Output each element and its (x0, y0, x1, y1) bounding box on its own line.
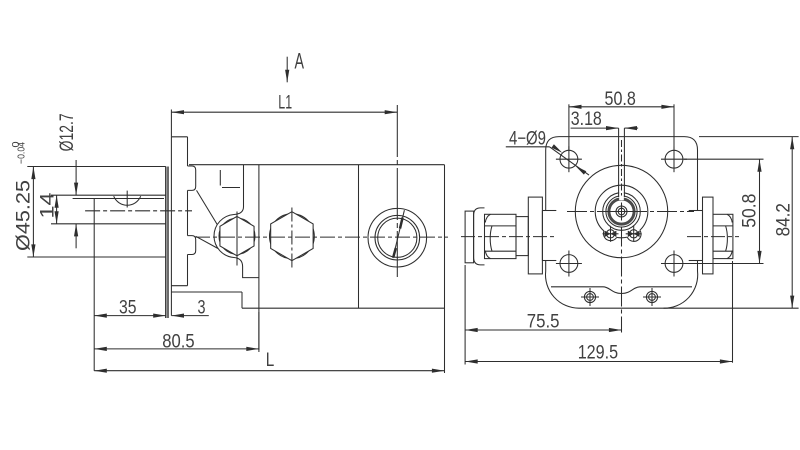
right port boss (689, 211, 703, 261)
left fitting hex nut (485, 214, 517, 258)
bell cover arc around plug (214, 215, 234, 258)
cylinder pilot boss Ø45.25 (27, 167, 166, 258)
dim 14 (56, 195, 58, 224)
svg-text:80.5: 80.5 (162, 331, 194, 352)
cover foot (171, 292, 242, 308)
keyway slot lines / 3.18 extensions (619, 128, 625, 200)
dim Ø45.25 0/-0.04 (32, 167, 34, 258)
bolt hole upper-right (661, 146, 687, 172)
svg-text:Ø12.7: Ø12.7 (57, 113, 78, 151)
square flange outline with rounded top corners (546, 137, 698, 211)
svg-text:129.5: 129.5 (578, 342, 618, 363)
svg-text:−0.04: −0.04 (16, 142, 28, 164)
dim 50.8 right (684, 159, 764, 263)
keyway line (73, 198, 164, 200)
bolt hole upper-left (556, 146, 582, 172)
cover edge vertical x243 (234, 165, 244, 215)
svg-text:35: 35 (119, 298, 137, 319)
bearing retainer circle with screw notches (595, 185, 648, 231)
shaft Ø12.7 (51, 195, 166, 224)
svg-text:50.8: 50.8 (605, 89, 636, 110)
joint line cover/body (258, 165, 260, 350)
rear port vertical centerline / L1 extension (396, 105, 398, 277)
shaft center dot (618, 208, 625, 215)
cylinder front face double line (166, 167, 168, 319)
flange lower tab (188, 236, 196, 255)
foot screw right (643, 288, 661, 306)
left port centerline (461, 236, 556, 238)
right fitting disc (703, 197, 714, 274)
foot screw left (581, 288, 599, 306)
flange plate (171, 137, 187, 316)
left fitting disc (528, 197, 542, 274)
dim 75.5 (465, 265, 621, 365)
left fitting end cap (465, 211, 474, 263)
hex plug P1 hexagon (220, 216, 254, 255)
dim 80.5 (94, 312, 259, 352)
rear port thread slant line (393, 210, 405, 258)
body right edge (444, 165, 446, 373)
bushing heavy ring (609, 199, 634, 224)
hex plug P2 vertical centerline (291, 208, 293, 268)
right port centerline (687, 236, 739, 238)
dim 35 (94, 315, 166, 317)
L-shaped surface mark (220, 170, 240, 188)
bell cover lower slant (196, 236, 218, 248)
svg-text:50.8: 50.8 (740, 194, 761, 228)
left fitting neck (516, 217, 528, 256)
dim 84.2 (699, 137, 799, 309)
body top edge (189, 164, 445, 166)
bearing bore outer circle (603, 193, 641, 231)
svg-text:84.2: 84.2 (773, 203, 794, 236)
body bottom edge (242, 307, 445, 309)
plug boss lower edge (234, 258, 259, 278)
woodruff key seat arc (114, 191, 141, 208)
svg-text:3.18: 3.18 (571, 109, 602, 130)
dim Ø45.25 text (10, 141, 35, 251)
hex plug P2 chamfer circle (270, 214, 315, 259)
retainer screw right (626, 226, 642, 242)
left port boss (542, 211, 556, 261)
svg-text:4−Ø9: 4−Ø9 (509, 129, 546, 150)
bottom left big fillet (545, 271, 579, 308)
joint line body/rear cover (358, 165, 360, 309)
bottom right big fillet (664, 271, 698, 308)
dim L1 (171, 110, 397, 137)
dim Ø12.7 (75, 160, 77, 248)
svg-text:3: 3 (198, 298, 206, 319)
svg-text:L1: L1 (278, 92, 292, 114)
cover scallop edge (551, 287, 692, 294)
svg-text:14: 14 (38, 192, 59, 219)
central pilot circle (575, 165, 667, 257)
label 4-Ø9 leader underline (506, 144, 589, 175)
plugs/port horizontal centerline (195, 236, 448, 238)
hex plug P2 hexagon (271, 212, 313, 261)
dim 3 (171, 315, 208, 317)
keyway end / 35 extension line (93, 199, 95, 371)
center crosshair (613, 211, 631, 213)
dim 50.8 top (569, 104, 674, 150)
shaft center ring (616, 206, 627, 217)
flange upper tab (188, 166, 196, 190)
svg-text:A: A (295, 48, 305, 73)
bolt hole lower-right (661, 251, 687, 277)
svg-text:75.5: 75.5 (527, 311, 560, 332)
rear port circles (368, 208, 427, 267)
right fitting hex nut (713, 214, 733, 258)
bolt hole lower-left (556, 251, 582, 277)
horizontal shaft centerline (567, 211, 694, 213)
hex plug P1 vertical centerline (236, 212, 238, 266)
vertical centerline (621, 227, 623, 333)
left fitting collar (474, 208, 485, 265)
section arrow A (286, 57, 288, 83)
bearing bore second circle (606, 196, 637, 227)
shaft centerline (85, 210, 192, 212)
hex plug P1 chamfer circle (219, 218, 255, 254)
dim L (94, 370, 444, 372)
bottom flat (579, 307, 799, 309)
dim 3.18 (571, 127, 639, 129)
dim 129.5 (465, 261, 732, 363)
retainer screw left (603, 226, 619, 242)
svg-text:Ø45.25: Ø45.25 (13, 180, 35, 251)
bell cover upper slant (197, 190, 218, 224)
svg-text:L: L (266, 350, 275, 371)
